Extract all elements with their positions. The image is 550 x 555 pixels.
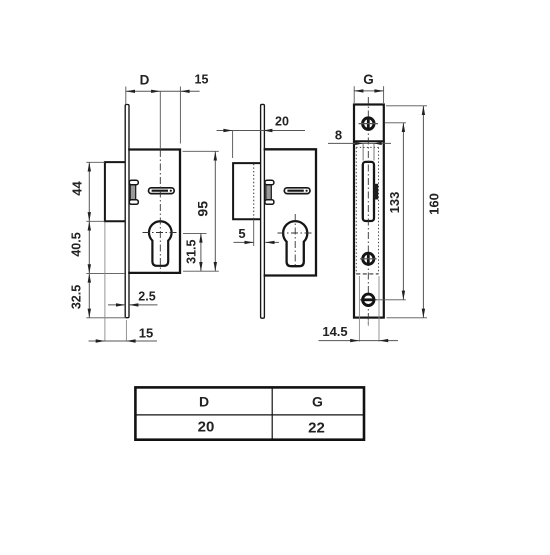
svg-text:D: D [140, 73, 150, 88]
euro cylinder (left view) [149, 221, 172, 266]
svg-text:5: 5 [238, 226, 245, 241]
svg-text:G: G [363, 72, 374, 87]
dimension 15 (bottom) [89, 223, 158, 343]
dimension 20 (top middle) [217, 115, 306, 159]
screw hole bottom (right view) [360, 294, 377, 305]
dimension 14.5 (bottom right view) [319, 276, 399, 342]
screw hole middle (right view) [360, 253, 377, 264]
svg-text:14.5: 14.5 [322, 324, 347, 339]
svg-text:44: 44 [70, 181, 85, 196]
svg-text:22: 22 [308, 420, 325, 437]
centerline vertical (left view) [159, 91, 161, 149]
svg-text:160: 160 [427, 193, 442, 215]
lock body (left view) [128, 150, 180, 273]
svg-text:133: 133 [387, 192, 402, 214]
dimension 95 (right of left view) [183, 151, 219, 271]
striking plate outline (right view) [354, 105, 384, 318]
svg-text:15: 15 [195, 73, 209, 87]
dimension 5 (middle) [234, 219, 280, 246]
svg-text:40.5: 40.5 [70, 232, 84, 256]
dimension 40.5 (left) [70, 221, 126, 273]
svg-text:20: 20 [275, 115, 289, 129]
hidden body outline dotted right (right view) [378, 147, 380, 274]
hidden body outline dotted left (right view) [355, 147, 357, 274]
svg-text:95: 95 [195, 201, 211, 217]
dimension G (top right view) [354, 72, 383, 103]
svg-text:20: 20 [198, 419, 215, 436]
dimension 32.5 (left) [70, 273, 127, 317]
dimension 2.5 (faceplate thickness) [108, 290, 158, 307]
dimension 44 (left) [70, 162, 105, 317]
svg-text:15: 15 [139, 326, 153, 341]
main centerline (right view) [367, 97, 369, 326]
hidden body outline dotted top (right view) [356, 146, 378, 148]
latch box (middle view) [233, 163, 261, 219]
latch bolt detail (left view) [129, 180, 138, 204]
dimension 8 (slot width) [328, 128, 391, 161]
table frame [135, 387, 364, 439]
faceplate (left view) [125, 105, 129, 318]
latch visible in slot (right view) [374, 184, 378, 200]
dimension 160 (right view) [386, 106, 442, 318]
svg-text:8: 8 [335, 128, 342, 143]
top section divider line (right view) [354, 140, 384, 142]
svg-text:2.5: 2.5 [138, 290, 155, 304]
svg-text:32.5: 32.5 [70, 285, 84, 309]
svg-text:G: G [312, 394, 323, 410]
euro cylinder (middle view) [283, 221, 307, 266]
dimension 31.5 (right of cylinder) [183, 233, 207, 271]
keyhole slot (left view) [149, 188, 175, 194]
screw hole top (right view) [359, 118, 378, 129]
svg-text:31.5: 31.5 [185, 239, 199, 263]
keyhole slot (middle view) [284, 188, 310, 194]
latch dotted line (middle view) [253, 164, 255, 219]
dimension D (top left) [126, 73, 200, 144]
latch box (left view) [105, 162, 126, 221]
centerline horizontal through cylinder (left view) [143, 232, 178, 234]
lock body (middle view) [264, 149, 316, 275]
faceplate (middle view) [261, 104, 265, 318]
dimension 133 (right view) [377, 123, 406, 300]
crosshair vertical (middle view cylinder) [294, 214, 296, 267]
dimension 15 (top) [180, 73, 208, 94]
hidden body dashed bottom (right view) [356, 273, 378, 275]
crosshair horizontal (middle view cylinder) [278, 232, 313, 234]
latch slot (right view) [363, 162, 374, 221]
latch bolt detail (middle view) [265, 180, 274, 204]
svg-text:D: D [199, 394, 209, 410]
